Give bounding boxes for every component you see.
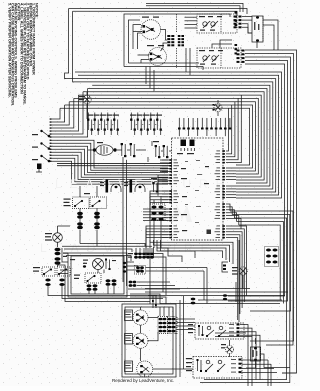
wire right bus outer 2	[245, 54, 294, 342]
wire sensor to east	[58, 265, 151, 302]
oven lamp assembly OL1	[96, 145, 113, 155]
wire right bus outer 5	[228, 64, 285, 296]
wire lower-left feed 2	[64, 249, 132, 252]
ERC top connector row	[178, 128, 181, 130]
wire main bus 10	[69, 102, 255, 171]
lock motor box	[68, 253, 127, 297]
wire inner border loop	[73, 11, 237, 16]
wire latch downs	[48, 286, 157, 296]
E4 label box	[125, 334, 133, 345]
oven light indicator J1	[239, 267, 247, 275]
bake element E3	[133, 310, 148, 325]
wire right lower horiz	[145, 288, 250, 290]
wire ERC right D5	[226, 216, 239, 225]
wire ERC right D2	[226, 207, 232, 215]
wire SW-A outputs	[242, 16, 252, 18]
surface element enclosure loop 3	[133, 25, 141, 49]
wire lower crossings	[145, 252, 147, 258]
wire fan 8	[51, 161, 169, 184]
lock beads	[87, 284, 92, 287]
plug connector P3	[158, 317, 168, 334]
wire ERC top row drops	[178, 130, 180, 137]
wire TF1 bottom	[246, 361, 256, 368]
surface element enclosure outer box	[124, 14, 230, 67]
wire enclosure bottom 1	[124, 67, 203, 71]
ERC left connector group y160	[169, 159, 172, 161]
wire ERC right B2	[226, 170, 236, 172]
fuse F9	[143, 120, 145, 131]
wire CN3 vertical returns	[206, 268, 208, 304]
lock connector beads	[106, 279, 111, 282]
wire mid drops	[122, 157, 124, 282]
E5 label box	[125, 361, 133, 372]
wire main bus 5	[92, 85, 270, 186]
notice text block (rotated service notes)	[7, 3, 38, 106]
ERC right connector group y168	[222, 167, 225, 169]
wire right bus outer 4	[228, 61, 288, 302]
wire ERC left C3	[150, 197, 168, 217]
wire ERC left E3	[146, 232, 168, 247]
fan terminal dots	[50, 118, 52, 119]
IS2 bead stack	[94, 212, 100, 215]
wire mid vertical 2	[153, 247, 155, 258]
relay K1 box	[252, 16, 263, 42]
wire mid bus east	[230, 211, 293, 345]
wire ERC right A3	[226, 102, 235, 157]
broil element E4	[133, 333, 148, 348]
wire row2 link	[127, 149, 130, 151]
wire ERC left E5	[146, 238, 168, 253]
dashed partition	[176, 14, 178, 33]
hi-limit switch HL1	[193, 357, 242, 379]
switch bank SW-A (right top)	[197, 14, 237, 33]
wire TS1 feed vertical	[238, 240, 240, 322]
wire CN3 east	[146, 267, 208, 269]
fuse F8	[121, 144, 123, 156]
wire mid vertical 3	[157, 247, 195, 258]
wire main bus 8	[78, 95, 261, 177]
feed labels	[63, 253, 68, 254]
ERC right connector group y226	[222, 225, 225, 227]
wire fan 4	[51, 149, 169, 175]
IS1 bead stack	[77, 212, 83, 215]
E3 label box	[125, 310, 133, 321]
connector stack CN1	[151, 206, 156, 209]
wire ERC right D1	[226, 204, 230, 211]
capacitor C10	[155, 146, 157, 157]
relay coil L2	[135, 184, 145, 189]
wire ERC left A2	[160, 162, 168, 164]
wire ERC left C4	[150, 200, 168, 220]
wire K1 bottom lead	[256, 42, 258, 48]
fuse F3	[94, 120, 96, 131]
relay coil L1	[111, 184, 121, 189]
indicator P2 (circle on bus right)	[214, 104, 222, 112]
wire TF1 top	[255, 338, 257, 344]
wire lock internals	[97, 270, 99, 274]
latch beads	[45, 279, 50, 282]
wire box verticals	[145, 67, 147, 85]
wire TS1 east	[240, 325, 248, 387]
wire left risers to bottom box	[62, 248, 68, 262]
wire lower-left feed 4	[80, 244, 145, 247]
ERC left connector group y209	[169, 208, 172, 210]
plug connector P5	[265, 247, 279, 267]
wire left riser 2	[51, 105, 65, 122]
wire ERC left B1	[158, 175, 168, 187]
wire bead column drops	[79, 230, 81, 244]
oven sensor S1 (circle)	[53, 233, 63, 243]
wire OL1 leads	[88, 149, 93, 151]
wire element links	[148, 317, 158, 319]
wire right bus outer 1	[245, 50, 297, 373]
wire TB1 to E2	[161, 43, 168, 51]
wire main bus 1	[75, 72, 282, 198]
wire connector drops	[159, 307, 161, 316]
fuse F5	[107, 120, 109, 131]
ERC right connector group y186	[222, 185, 225, 187]
wire ERC left B3	[158, 181, 168, 193]
wire left riser 3	[51, 102, 70, 125]
convection element E5	[137, 361, 153, 377]
fuse F4	[100, 120, 102, 131]
wire ERC left E2	[146, 229, 168, 244]
wire S1 top	[57, 226, 59, 233]
wire ERC right E1	[226, 226, 247, 296]
thermal fuse TF1	[251, 347, 261, 361]
wire main bus 9	[74, 98, 258, 174]
fuse F9	[130, 144, 132, 156]
plug connector CN3 pair	[136, 266, 140, 269]
wire SW-B top feeds	[212, 44, 232, 48]
fuse F7	[130, 120, 132, 131]
wire HL1 risers	[267, 360, 269, 386]
wire ERC right A5	[226, 95, 241, 163]
wire outer border loop	[69, 9, 247, 15]
wire ERC left A5	[160, 171, 168, 173]
door switch SW1	[48, 135, 51, 138]
wire ERC left C1	[150, 191, 168, 211]
wire K1 right leads	[263, 20, 278, 50]
wire ERC right B3	[226, 173, 236, 175]
wire ERC left B2	[158, 178, 168, 190]
wire ERC right E3	[226, 232, 242, 308]
wire main bus 12	[60, 108, 250, 165]
wire TB1 to SW-A	[185, 16, 198, 18]
door latch switch DLS1	[42, 267, 55, 276]
switch bank SW-B (right lower)	[197, 48, 241, 68]
wire main bus 11	[65, 105, 253, 168]
plug connector CN4 pair	[129, 281, 133, 284]
fuse F11	[156, 120, 158, 131]
connector pins SW-B	[237, 50, 240, 52]
wire fan 7	[51, 158, 169, 182]
wire main bus 2	[78, 75, 279, 195]
wire CN4 east	[137, 281, 170, 283]
wire ERC right D4	[226, 213, 237, 222]
wire ERC left E1	[146, 226, 168, 241]
lock switch LSW	[85, 273, 101, 283]
indicator P1 (circle on bus)	[83, 95, 91, 103]
capacitor pair CP1	[153, 183, 155, 192]
svg-text:Rendered by LeadVenture, Inc.: Rendered by LeadVenture, Inc.	[112, 378, 174, 383]
sensor beads	[55, 248, 61, 251]
door latch switch DLS2	[57, 267, 70, 276]
wire mid vertical 1	[149, 222, 151, 304]
wire TB1 to E1	[161, 30, 168, 41]
wire ERC right A1	[226, 108, 229, 151]
surface element enclosure loop 2	[129, 20, 141, 63]
wire left riser 7	[51, 89, 88, 138]
wire S1 bottom	[57, 242, 59, 247]
wire right-of-box verticals	[179, 300, 181, 377]
wire left riser 5	[51, 95, 79, 131]
hanging beads	[191, 298, 196, 301]
wire ERC left E4	[146, 235, 168, 250]
fuse F8	[137, 120, 139, 131]
wire fan 5	[51, 152, 169, 177]
wire E1 leads	[141, 25, 142, 27]
wire heavy neutral	[57, 162, 171, 164]
wire ERC left D5	[143, 220, 168, 222]
wire ERC left D1	[143, 208, 168, 210]
wire main bus 3	[65, 79, 276, 192]
fuse F6	[113, 120, 115, 131]
ERC left connector group y226	[169, 225, 172, 227]
wire fan 1	[51, 140, 169, 168]
terminal block TB1 pins	[167, 35, 170, 37]
wire ERC left A1	[160, 159, 168, 161]
wire fan 6	[51, 155, 169, 179]
ERC right connector group y151	[222, 150, 225, 152]
door bracket component	[222, 262, 228, 272]
fuse F10	[150, 120, 152, 131]
wire TF1 east loop	[261, 354, 291, 368]
wire main bus 6	[88, 89, 267, 184]
ERC right connector group y204	[222, 203, 225, 205]
wire ERC right D3	[226, 210, 234, 218]
wire fan 2	[51, 143, 169, 170]
wire ERC right E4	[226, 235, 240, 314]
wire lower-left feed 3	[66, 256, 131, 262]
wire IS stack links	[79, 209, 81, 213]
wire CN2 east	[154, 254, 163, 293]
wire top supply line 1	[146, 3, 243, 12]
wire E2 leads	[138, 54, 150, 56]
oven thermostat TS1	[195, 323, 244, 339]
connector pins SW-A	[234, 16, 237, 18]
wire ERC right C5	[226, 197, 236, 199]
surface element enclosure loop 4	[138, 33, 142, 49]
wire sub-ERC returns	[150, 240, 233, 264]
wire main bus 7	[83, 92, 264, 180]
ground terminal	[37, 164, 42, 170]
wire box to TF1	[215, 332, 246, 334]
wire J1 links	[242, 275, 244, 288]
wire ERC right A2	[226, 105, 232, 154]
hanging component HC1	[152, 296, 154, 308]
door switch SW2	[48, 147, 51, 150]
wire right verticals lower	[282, 372, 297, 374]
wire ERC left B4	[158, 184, 168, 196]
interlock switch IS1	[73, 197, 90, 209]
wire ERC right B4	[226, 176, 236, 178]
wire ERC right C3	[226, 191, 236, 193]
door sensor DS1	[226, 346, 234, 354]
electronic range control ERC1	[172, 138, 224, 240]
wire HL1 east	[242, 359, 268, 361]
wire ERC left C2	[150, 194, 168, 214]
wire P4 east	[177, 318, 195, 320]
wire mid vertical 4	[161, 248, 182, 262]
plug connector P4	[168, 317, 178, 334]
ERC left connector group y175	[169, 174, 172, 176]
ERC inner labels	[181, 168, 186, 169]
wire element chain verticals	[140, 307, 142, 310]
wire enclosure bottom 2	[129, 62, 200, 64]
wire right bus outer 3	[245, 57, 291, 311]
wire ERC right C4	[226, 194, 236, 196]
wire fan 3	[51, 146, 169, 172]
wire ERC right E2	[226, 229, 244, 302]
wire lock east	[127, 261, 134, 263]
wire CN1 leads	[153, 220, 155, 248]
surface element E2 (right front)	[149, 48, 167, 66]
fuse F2	[87, 120, 89, 131]
wire ERC right B5	[226, 179, 236, 181]
wire ERC left C5	[150, 203, 168, 223]
wire ERC right A4	[226, 98, 238, 159]
terminal strip pins near border	[235, 12, 238, 14]
wire row2 east	[161, 150, 163, 152]
hanging beads 2	[223, 294, 227, 297]
wire ERC right E5	[226, 238, 238, 320]
surface element E1 (right rear)	[141, 20, 161, 40]
lock cam bars	[105, 260, 107, 270]
wire lower-left feed 1	[62, 245, 152, 247]
wire ERC right C2	[226, 188, 236, 190]
wire left riser 1	[51, 108, 61, 119]
wire ERC left D2	[143, 211, 168, 213]
door switch labels	[32, 134, 38, 135]
oven element enclosure outer	[122, 304, 176, 377]
wire top supply line 2	[146, 6, 240, 12]
wire main bus 4	[73, 82, 273, 189]
wire ERC left A3	[160, 165, 168, 167]
ERC transformer windings	[181, 140, 187, 147]
wire left riser 6	[51, 92, 84, 134]
wire ERC right C1	[226, 185, 236, 187]
wire ERC left D4	[143, 217, 168, 219]
wire left riser 4	[51, 98, 74, 128]
wire ERC left D3	[143, 214, 168, 216]
wire ERC right B1	[226, 167, 236, 169]
capacitor C11	[163, 146, 165, 157]
wire ERC left A4	[160, 168, 168, 170]
wire ERC right D6	[226, 219, 241, 229]
plug connector CN2 row	[134, 252, 138, 255]
door switch SW3	[48, 160, 51, 163]
wire lock west feeds	[60, 269, 68, 271]
oven element enclosure inner	[125, 307, 173, 374]
ERC left connector group y191	[169, 190, 172, 192]
wire heavy line 2	[57, 165, 171, 167]
svg-text:5. VERIFY PROPER OPERATION AFT: 5. VERIFY PROPER OPERATION AFTER SERVICI…	[7, 3, 11, 98]
lock motor M2	[93, 259, 104, 270]
interlock switch IS2	[90, 197, 107, 209]
